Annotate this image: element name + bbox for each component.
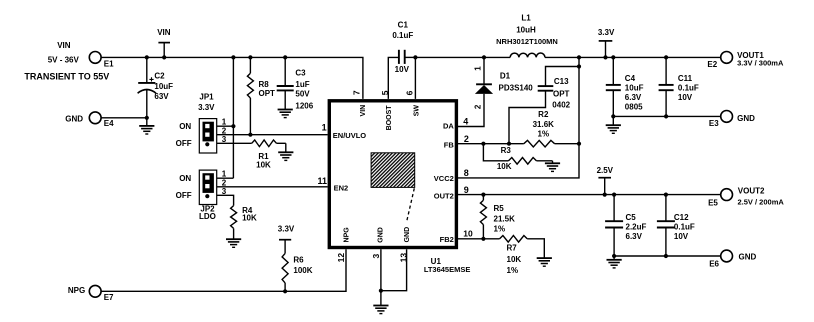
JP1 pin numbers <box>222 118 227 144</box>
svg-text:1: 1 <box>322 122 327 132</box>
terminal E7 (NPG) <box>68 285 114 302</box>
svg-text:OPT: OPT <box>259 89 276 98</box>
svg-text:C2: C2 <box>154 72 165 81</box>
junction dot C2 ground node <box>145 116 149 120</box>
ground below C5 <box>607 256 622 268</box>
pin label DA <box>443 122 454 131</box>
svg-text:31.6K: 31.6K <box>533 120 555 129</box>
ground below C4 <box>606 116 621 133</box>
resistor R4 <box>217 195 257 239</box>
svg-text:63V: 63V <box>154 92 169 101</box>
svg-text:2.5V: 2.5V <box>597 166 614 175</box>
svg-text:E5: E5 <box>708 199 718 208</box>
svg-text:3: 3 <box>371 253 381 258</box>
svg-text:OPT: OPT <box>553 89 570 98</box>
pin number 6 <box>404 90 414 95</box>
net VIN tap <box>157 28 171 57</box>
svg-text:3.3V: 3.3V <box>598 28 615 37</box>
junction dots VOUT2 ground rail <box>612 254 668 258</box>
node VIN input labels <box>24 41 109 81</box>
pin label NPG <box>344 227 351 243</box>
pin number 10 (FB2) <box>463 229 473 239</box>
junction dots VOUT1 rail <box>577 55 668 59</box>
svg-text:0.1uF: 0.1uF <box>678 84 699 93</box>
capacitor C4 <box>606 57 644 116</box>
svg-text:D1: D1 <box>500 72 511 81</box>
svg-text:VOUT2: VOUT2 <box>738 186 765 195</box>
svg-text:13: 13 <box>399 253 409 263</box>
ground for R1 <box>278 143 293 160</box>
svg-text:LT3645EMSE: LT3645EMSE <box>424 265 471 274</box>
label U1 <box>424 257 471 274</box>
svg-text:EN/UVLO: EN/UVLO <box>333 131 367 140</box>
svg-text:3.3V / 300mA: 3.3V / 300mA <box>737 58 784 67</box>
wire E4 to C2 ground node <box>101 117 147 119</box>
svg-text:0805: 0805 <box>625 102 643 111</box>
svg-text:7: 7 <box>352 90 362 95</box>
svg-text:10: 10 <box>463 229 473 239</box>
svg-text:10uF: 10uF <box>154 82 173 91</box>
svg-text:NPG: NPG <box>344 227 351 243</box>
net 2.5V tap <box>597 166 614 194</box>
svg-text:E6: E6 <box>709 259 719 268</box>
pin label GND (13) <box>404 227 411 243</box>
svg-text:R8: R8 <box>259 80 270 89</box>
svg-text:JP1: JP1 <box>199 93 214 102</box>
JP2 pin numbers <box>222 170 227 196</box>
junction dot SW node <box>413 55 417 59</box>
svg-text:0.1uF: 0.1uF <box>392 31 413 40</box>
pin label GND (3) <box>377 227 384 243</box>
svg-text:FB2: FB2 <box>440 235 454 244</box>
svg-text:C1: C1 <box>398 21 409 30</box>
wire VOUT1 ground rail to E3 <box>613 115 720 117</box>
junction dot C13 top <box>577 64 581 68</box>
terminal E2 (VOUT1) <box>707 51 784 69</box>
svg-text:FB: FB <box>444 140 455 149</box>
svg-text:5V - 36V: 5V - 36V <box>48 56 80 65</box>
svg-text:0.1uF: 0.1uF <box>674 223 695 232</box>
wire FB2 (U1 pin 10) <box>456 238 499 240</box>
resistor R1 <box>217 140 286 169</box>
pin number 1 (EN/UVLO) <box>322 122 327 132</box>
pin number 3 <box>371 253 381 258</box>
svg-text:PD3S140: PD3S140 <box>499 84 534 93</box>
wire JP1 pin 1 <box>217 125 234 127</box>
svg-text:GND: GND <box>65 115 83 124</box>
svg-text:GND: GND <box>404 227 411 243</box>
pin label EN2 <box>334 183 349 192</box>
ground for R7 <box>537 258 552 266</box>
svg-text:E1: E1 <box>104 59 114 68</box>
svg-text:E4: E4 <box>104 119 114 128</box>
svg-text:C5: C5 <box>626 213 637 222</box>
junction dot C13 bottom <box>507 142 511 146</box>
svg-text:6: 6 <box>404 90 414 95</box>
wire OUT2 (U1 pin 9) to E5 <box>456 194 720 196</box>
capacitor C2 <box>138 57 174 117</box>
label JP1 <box>198 93 215 112</box>
svg-text:8: 8 <box>464 168 469 178</box>
pin number 9 (OUT2) <box>464 185 469 195</box>
svg-text:SW: SW <box>413 105 420 117</box>
wire NPG to U1 pin 12 <box>101 249 346 291</box>
resistor R7 <box>500 236 545 276</box>
svg-text:1206: 1206 <box>295 102 313 111</box>
svg-text:VIN: VIN <box>360 105 367 117</box>
dashed line pad to GND <box>407 188 415 222</box>
svg-text:OUT2: OUT2 <box>434 191 454 200</box>
pin number 11 (EN2) <box>318 176 328 186</box>
svg-text:10K: 10K <box>242 214 257 223</box>
svg-text:OFF: OFF <box>176 139 192 148</box>
svg-text:C3: C3 <box>295 68 306 77</box>
svg-text:50V: 50V <box>295 89 310 98</box>
wire U1 GND pin 13 <box>381 249 407 291</box>
svg-text:BOOST: BOOST <box>386 105 393 131</box>
inductor L1 <box>496 13 558 57</box>
svg-text:2: 2 <box>474 104 483 109</box>
svg-text:EN2: EN2 <box>334 183 349 192</box>
ground for R3 <box>545 161 560 172</box>
svg-text:6.3V: 6.3V <box>626 232 643 241</box>
pin label EN/UVLO <box>333 131 367 140</box>
svg-text:L1: L1 <box>521 13 531 22</box>
label JP2 <box>199 204 216 221</box>
junction dot D1/SW rail <box>482 55 486 59</box>
pin number 5 <box>380 90 390 95</box>
svg-text:0402: 0402 <box>552 101 570 110</box>
pin number 8 (VCC2) <box>464 168 469 178</box>
svg-text:3: 3 <box>222 135 227 144</box>
capacitor C11 <box>659 57 699 116</box>
pin label VIN <box>360 105 367 117</box>
junction dot R2 right <box>577 142 581 146</box>
svg-text:9: 9 <box>464 185 469 195</box>
svg-text:OFF: OFF <box>176 191 192 200</box>
terminal E3 (GND) <box>709 111 755 128</box>
svg-text:VIN: VIN <box>157 28 171 37</box>
svg-text:TRANSIENT TO 55V: TRANSIENT TO 55V <box>24 72 109 82</box>
pin label FB2 <box>440 235 454 244</box>
junction dot EN/UVLO R8 <box>248 133 252 137</box>
svg-text:2.5V / 200mA: 2.5V / 200mA <box>738 198 785 207</box>
pin label OUT2 <box>434 191 454 200</box>
svg-text:10V: 10V <box>678 93 693 102</box>
svg-text:R6: R6 <box>293 256 304 265</box>
net 3.3V tap <box>598 28 615 58</box>
junction dot JP1 pin 1 <box>231 124 235 128</box>
capacitor C1 <box>388 21 415 99</box>
svg-text:E3: E3 <box>709 119 719 128</box>
wire EN2 (JP2 pin 2 to U1 pin 11) <box>217 186 328 188</box>
pin number 13 <box>399 253 409 263</box>
capacitor C5 <box>605 195 646 256</box>
svg-text:1%: 1% <box>507 266 519 275</box>
label JP1 ON/OFF <box>176 122 192 148</box>
resistor R8 <box>247 57 275 134</box>
wire SW rail to L1 <box>415 56 510 58</box>
terminal E1 <box>89 52 114 69</box>
pin label VCC2 <box>434 174 454 183</box>
svg-text:GND: GND <box>377 227 384 243</box>
svg-text:10V: 10V <box>395 65 410 74</box>
svg-text:10V: 10V <box>674 232 689 241</box>
svg-text:R7: R7 <box>507 243 518 252</box>
wire VOUT2 ground rail to E6 <box>614 255 721 257</box>
svg-text:VCC2: VCC2 <box>434 174 454 183</box>
svg-text:12: 12 <box>336 253 346 263</box>
wire JP2 pin 1 <box>217 177 234 179</box>
svg-text:ON: ON <box>179 174 191 183</box>
junction dots VOUT1 ground rail <box>611 114 668 118</box>
op-amp U1 body (LT3645EMSE) <box>329 101 456 248</box>
ground below C2 <box>139 118 154 134</box>
wire SW pin 6 <box>414 57 416 99</box>
svg-text:E2: E2 <box>707 60 717 69</box>
svg-text:R5: R5 <box>494 204 505 213</box>
capacitor C12 <box>657 195 695 256</box>
svg-text:1uF: 1uF <box>295 80 309 89</box>
terminal E6 (GND) <box>709 250 756 268</box>
resistor R6 <box>282 253 313 291</box>
svg-text:3.3V: 3.3V <box>278 225 295 234</box>
svg-text:10uF: 10uF <box>625 84 644 93</box>
svg-text:10K: 10K <box>507 255 522 264</box>
wire VIN rail to pin 7 <box>101 57 363 99</box>
capacitor C3 <box>277 57 314 110</box>
wire L1 to VOUT1 rail <box>545 56 721 58</box>
svg-text:10K: 10K <box>256 160 271 169</box>
junction dot R6/NPG <box>283 289 287 293</box>
exposed pad (hatched) <box>371 153 415 188</box>
svg-text:GND: GND <box>737 114 755 123</box>
resistor R2 <box>524 110 579 147</box>
pin number 7 <box>352 90 362 95</box>
svg-text:C11: C11 <box>678 74 693 83</box>
svg-text:1%: 1% <box>538 130 550 139</box>
pin label SW <box>413 105 420 117</box>
pin number 2 (FB) <box>464 134 469 144</box>
svg-text:11: 11 <box>318 176 328 186</box>
svg-text:10uH: 10uH <box>516 25 536 34</box>
junction dot GND pins <box>379 289 383 293</box>
svg-text:6.3V: 6.3V <box>625 93 642 102</box>
svg-text:1: 1 <box>474 66 483 71</box>
wire VOUT1 node down to VCC2 <box>456 57 579 177</box>
junction dot FB2/R5 <box>481 237 485 241</box>
junction dots VIN rail <box>145 55 288 59</box>
junction dot FB/R3 <box>481 142 485 146</box>
svg-text:NRH3012T100MN: NRH3012T100MN <box>496 37 558 46</box>
svg-text:C12: C12 <box>674 213 689 222</box>
svg-text:VIN: VIN <box>57 41 71 50</box>
svg-text:3.3V: 3.3V <box>198 103 215 112</box>
resistor R3 <box>483 144 552 171</box>
svg-text:4: 4 <box>463 117 468 127</box>
wire U1 GND pin 3 <box>380 249 382 291</box>
pin label BOOST <box>386 105 393 131</box>
svg-text:1%: 1% <box>494 225 506 234</box>
pin number 4 (DA) <box>463 117 468 127</box>
net 3.3V tap above R6 <box>278 225 295 254</box>
jumper JP2 <box>199 170 216 204</box>
label JP2 ON/OFF <box>176 174 192 200</box>
svg-text:NPG: NPG <box>68 286 85 295</box>
svg-text:R3: R3 <box>501 146 512 155</box>
svg-text:2: 2 <box>464 134 469 144</box>
svg-text:DA: DA <box>443 122 454 131</box>
svg-text:C13: C13 <box>554 77 569 86</box>
wire VIN rail to JP1 pin 1 vertical <box>232 57 234 178</box>
svg-text:R2: R2 <box>538 110 549 119</box>
svg-text:10K: 10K <box>497 162 512 171</box>
diode D1 <box>456 57 533 126</box>
svg-text:ON: ON <box>179 122 191 131</box>
terminal E5 (VOUT2) <box>708 186 784 207</box>
ground for R4 <box>226 239 241 247</box>
svg-text:E7: E7 <box>104 293 114 302</box>
pin number 12 <box>336 253 346 263</box>
svg-text:C4: C4 <box>625 74 636 83</box>
ground for C3 <box>278 110 293 118</box>
svg-text:21.5K: 21.5K <box>494 214 516 223</box>
ground for U1 GND pins <box>373 291 388 314</box>
svg-text:100K: 100K <box>293 266 312 275</box>
capacitor C13 <box>509 67 579 144</box>
svg-text:3: 3 <box>222 187 227 196</box>
wire FB (U1 pin 2) to R2 <box>456 143 523 145</box>
svg-text:LDO: LDO <box>199 212 216 221</box>
terminal E4 (GND) <box>65 112 114 128</box>
resistor R5 <box>480 195 515 239</box>
junction dots OUT2 rail <box>481 193 668 197</box>
svg-text:GND: GND <box>739 252 757 261</box>
wire EN/UVLO (JP1 pin 2 to U1 pin 1) <box>217 134 328 136</box>
jumper JP1 <box>199 119 216 153</box>
svg-text:2.2uF: 2.2uF <box>626 223 647 232</box>
pin label FB <box>444 140 455 149</box>
